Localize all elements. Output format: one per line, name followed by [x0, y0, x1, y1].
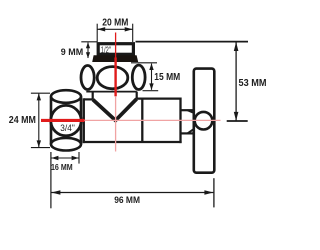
16 MM right extension: [78, 152, 80, 164]
left fitting middle ellipse: [51, 105, 81, 135]
svg-text:96 MM: 96 MM: [114, 195, 140, 205]
stem ball: [195, 112, 213, 130]
stem top line: [181, 109, 194, 111]
dimension 24 MM arrow: [38, 94, 40, 148]
svg-text:16 MM: 16 MM: [51, 163, 73, 172]
hex nut left facet ellipse: [81, 66, 94, 90]
top reference line to 53 MM: [136, 41, 249, 43]
left fitting bottom ellipse: [51, 138, 81, 151]
15 MM bottom extension line: [143, 90, 159, 92]
body top left segment: [84, 98, 93, 100]
valve 1/2 inch nut: [98, 44, 133, 55]
svg-text:53 MM: 53 MM: [239, 78, 267, 89]
neck left vertical: [92, 92, 94, 100]
dimension 16 MM arrow: [51, 157, 78, 159]
shoulder line under hex: [86, 91, 137, 93]
svg-text:3/4": 3/4": [60, 123, 75, 133]
extension line right of 20 MM: [132, 24, 134, 42]
svg-text:1/2": 1/2": [101, 45, 111, 55]
24 MM bottom extension: [31, 147, 50, 149]
svg-text:24 MM: 24 MM: [9, 115, 36, 126]
hex nut right facet ellipse: [132, 65, 145, 89]
15 MM top extension line: [131, 62, 157, 64]
body bottom edge: [83, 141, 182, 143]
left fitting side walls: [50, 97, 53, 145]
body right edge: [179, 98, 181, 144]
red horizontal centerline thick: [41, 119, 85, 122]
V funnel: [93, 99, 137, 121]
dimension 15 MM arrow: [151, 64, 153, 90]
dimension 9 MM arrow: [87, 43, 89, 59]
body left edge: [83, 98, 85, 143]
extension line left of 20 MM: [96, 24, 98, 42]
hex nut center ellipse: [97, 67, 128, 89]
black collar band: [92, 55, 138, 62]
dimension 53 MM line: [235, 42, 237, 121]
red horizontal centerline light: [85, 119, 221, 121]
handle bar: [194, 69, 215, 173]
red vertical centerline lower light: [115, 96, 117, 151]
53 MM bottom extension: [227, 120, 248, 122]
dimension 96 MM line: [51, 192, 213, 194]
stem flare top: [188, 110, 198, 114]
16 MM left extension: [50, 152, 52, 208]
left fitting top ellipse: [51, 90, 81, 103]
96 MM right extension: [213, 178, 215, 207]
red vertical centerline thick: [114, 58, 116, 97]
stem flare bottom: [188, 127, 198, 134]
svg-text:15 MM: 15 MM: [154, 72, 180, 83]
neck right vertical: [136, 92, 138, 99]
24 MM top extension: [31, 92, 50, 94]
dimension 20 MM line: [97, 28, 133, 30]
extension line for 9 MM: [81, 41, 97, 43]
svg-text:20 MM: 20 MM: [102, 18, 128, 29]
stem bottom line: [181, 132, 194, 134]
svg-text:9 MM: 9 MM: [61, 47, 83, 57]
bonnet divider: [141, 99, 143, 142]
body top right segment: [137, 97, 181, 99]
red vertical centerline upper thin: [115, 33, 117, 58]
